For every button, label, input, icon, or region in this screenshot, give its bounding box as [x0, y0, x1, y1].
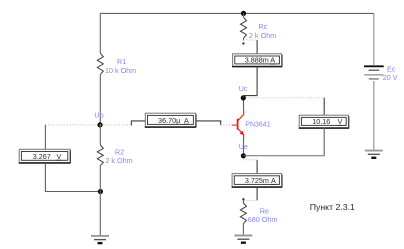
node Ub junction dot: [97, 122, 102, 127]
resistor R1: [97, 53, 103, 74]
node junction dot bottom-left: [98, 189, 103, 194]
svg-text:2 k Ohm: 2 k Ohm: [249, 31, 276, 40]
node Uc junction dot: [241, 95, 246, 100]
voltmeter U2 10.16 V: [299, 115, 349, 128]
svg-text:A: A: [184, 116, 189, 125]
svg-text:R1: R1: [117, 57, 126, 66]
wire battery to right ground: [373, 81, 375, 150]
wire left branch down to R1: [99, 13, 101, 53]
resistor Rc: [243, 13, 245, 17]
ammeter collector current 3.888mA: [232, 54, 282, 67]
wire jog up into ammeter XMM1: [131, 121, 145, 126]
resistor Re: [242, 200, 244, 203]
svg-text:Re: Re: [260, 206, 269, 215]
svg-text:10 k Ohm: 10 k Ohm: [105, 66, 136, 75]
wire node Ub down to R2: [99, 125, 101, 145]
voltmeter U1 3.267 V: [19, 149, 71, 163]
node junction dot top rail: [241, 11, 246, 16]
wire R1 bottom to node Ub: [99, 75, 101, 125]
wire ammeter down to node Uc: [243, 66, 257, 98]
ammeter base current 36.70uA: [145, 113, 196, 127]
wire emitter to node Ue: [243, 139, 245, 156]
svg-text:A: A: [271, 176, 276, 185]
svg-text:V: V: [57, 152, 62, 161]
svg-text:10.16: 10.16: [312, 117, 330, 126]
wire ammeter XMM1 to transistor base: [196, 121, 221, 125]
Rc bottom pin dot: [242, 42, 244, 44]
battery Ec 20 V: [364, 66, 384, 79]
svg-text:3.267: 3.267: [33, 152, 51, 161]
svg-text:A: A: [270, 56, 275, 65]
wire into emitter ammeter: [256, 160, 258, 174]
svg-text:PN3641: PN3641: [245, 121, 270, 128]
svg-text:680 Ohm: 680 Ohm: [248, 215, 278, 224]
svg-text:Rc: Rc: [259, 22, 268, 31]
svg-text:2 k Ohm: 2 k Ohm: [105, 156, 132, 165]
wire node Ub left to voltmeter branch (dotted): [45, 124, 100, 126]
wire ammeter down to Re (dotted jog): [256, 187, 258, 201]
wire top rail from R1 branch to battery: [100, 12, 374, 14]
svg-text:Uc: Uc: [239, 84, 248, 93]
svg-text:V: V: [338, 117, 343, 126]
wire node Ub right to ammeter XMM1 (dotted): [100, 124, 131, 126]
wire R2 bottom to left ground: [99, 166, 101, 236]
wire node Ue to emitter ammeter (dotted jog): [243, 159, 257, 161]
svg-text:20 V: 20 V: [383, 73, 398, 82]
svg-text:Пункт 2.3.1: Пункт 2.3.1: [310, 202, 355, 212]
wire Rc to ammeter (dotted jog): [244, 39, 258, 41]
svg-text:3.725m: 3.725m: [245, 176, 269, 185]
wire voltmeter U1 bottom to ground rail: [45, 163, 100, 192]
wire voltmeter U2 down to Ue rail: [323, 128, 325, 156]
wire down into voltmeter U2: [323, 98, 325, 116]
wire battery branch: [373, 13, 375, 65]
wire node Uc to voltmeter branch (dotted): [246, 97, 324, 99]
wire down to voltmeter U1: [44, 125, 46, 149]
svg-text:Ue: Ue: [239, 142, 248, 151]
wire into collector ammeter: [256, 40, 258, 54]
transistor Q1 PN3641 (selected, red): [232, 110, 244, 139]
svg-text:Ub: Ub: [94, 111, 103, 120]
svg-text:36.70µ: 36.70µ: [158, 116, 180, 125]
Re top pin dot: [242, 198, 244, 200]
node Ue junction dot: [241, 153, 246, 158]
svg-text:3.888m: 3.888m: [245, 56, 269, 65]
ground right: [365, 151, 383, 158]
ground middle: [234, 236, 252, 243]
resistor R2: [97, 145, 103, 166]
wire collector to node Uc: [243, 98, 245, 110]
wire node Ue to voltmeter branch: [243, 155, 324, 157]
ground left: [91, 236, 109, 243]
ammeter emitter current 3.725mA: [232, 174, 283, 188]
wire dotted segment to base: [221, 124, 232, 126]
